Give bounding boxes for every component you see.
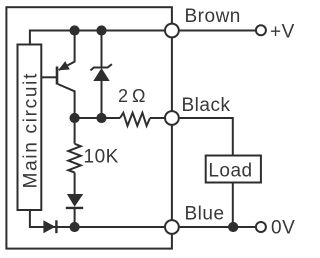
svg-text:Blue: Blue: [185, 204, 225, 225]
svg-text:0V: 0V: [271, 217, 295, 238]
svg-text:Black: Black: [182, 95, 231, 116]
svg-text:Main circuit: Main circuit: [20, 72, 41, 188]
svg-text:10K: 10K: [84, 147, 119, 168]
svg-text:Ω: Ω: [132, 86, 145, 106]
svg-text:+V: +V: [270, 22, 295, 43]
svg-text:2: 2: [118, 86, 128, 106]
svg-text:Brown: Brown: [185, 6, 241, 27]
svg-text:Load: Load: [208, 161, 252, 182]
